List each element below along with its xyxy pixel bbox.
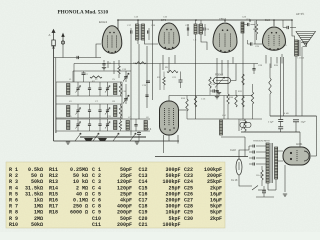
antenna terminal T — [61, 34, 64, 45]
wire IF2 to V3 grid — [201, 34, 207, 50]
coil L6 — [114, 121, 117, 130]
ground bank right — [135, 142, 139, 144]
coil L1 — [67, 84, 70, 95]
capacitor C4 — [88, 88, 91, 89]
mains tap 125V — [253, 145, 255, 148]
resistor R16 det — [235, 95, 238, 107]
capacitor C2 avc — [82, 73, 86, 74]
wire coupling to V4 grid — [254, 43, 263, 45]
trimmer capacitor C3 — [76, 88, 79, 89]
wire riser tube V4 screen — [273, 20, 275, 26]
IF transformer 2 windings L11 L12 — [194, 24, 197, 34]
table column C22-C30 — [184, 167, 222, 222]
wire IF2 primary top — [195, 20, 197, 24]
coil L7 row3 — [126, 121, 129, 131]
resistor R14 EM4 — [186, 99, 189, 111]
wire mains bottom — [256, 196, 274, 198]
capacitor C17 IF1 left — [131, 30, 132, 33]
wire det lower horizontal — [221, 136, 245, 138]
band switch arrow 1 — [75, 133, 81, 141]
wire rectifier anode leads — [278, 150, 283, 152]
capacitor C30 tone — [287, 26, 288, 29]
ground det — [215, 97, 219, 99]
wire IF2 secondary to detector — [195, 34, 197, 119]
resistor R11b det load lower — [242, 96, 245, 107]
wire osc vertical 3 — [146, 46, 148, 108]
trimmer capacitor row 3 — [106, 124, 109, 125]
wire riser IF1 primary — [137, 20, 139, 24]
wire IF1 secondary to V2 grid — [145, 40, 159, 44]
antenna terminal A — [52, 30, 56, 47]
resistor in row 2 — [119, 106, 122, 116]
resistor R15 V4 cathode — [269, 78, 272, 94]
wire EM4 top lead — [168, 96, 170, 102]
ground pot — [217, 93, 221, 95]
capacitor C28 V4 cathode — [252, 69, 255, 70]
output transformer frame — [301, 43, 307, 47]
wire lamp bottom — [239, 175, 252, 186]
wire det horizontal rail — [187, 118, 262, 120]
capacitor C31 mains — [262, 191, 266, 193]
IF transformer windings L9 L10 — [136, 24, 139, 40]
wire grid feed V1 — [96, 44, 101, 58]
wire row 2 bottom rail — [56, 117, 122, 119]
potentiometer P2 tone control — [240, 122, 251, 127]
wire riser tube V3 plate — [224, 20, 226, 22]
capacitor C27 filter — [278, 127, 283, 129]
output transformer core — [298, 40, 300, 56]
band switch wafer rail — [80, 136, 146, 138]
IF1 core — [139, 24, 141, 40]
coil L5 — [67, 121, 70, 130]
tube V4 output pentode — [263, 27, 286, 51]
wire riser tube V1 plate — [117, 20, 119, 30]
wire V4 plate drop — [280, 57, 282, 120]
capacitor C11 — [98, 124, 101, 125]
resistor R17 filter — [244, 121, 247, 131]
capacitor C8 — [98, 110, 101, 111]
wire main ground rail — [54, 140, 180, 142]
switch wafer contact 1 — [84, 138, 93, 141]
resistor R12 under V3 — [227, 94, 230, 104]
fuse bowtie on antenna lead — [52, 45, 55, 48]
capacitor C25 coupling — [251, 42, 252, 45]
wire drop to power section — [244, 137, 246, 157]
wire V3 pin leads — [216, 58, 218, 70]
power transformer primary winding — [266, 143, 269, 183]
wire V4 screen drop — [283, 57, 285, 116]
capacitor C21 V2 bypass — [179, 80, 183, 82]
output transformer winding L15 — [295, 40, 299, 56]
resistor R3 at V1 — [118, 66, 121, 74]
wire AVC bus upper — [74, 63, 258, 65]
wire coil bank mid rail — [121, 82, 123, 119]
wire gang link — [125, 84, 127, 93]
speaker AP — [296, 32, 316, 46]
wire avc drop — [73, 64, 75, 83]
capacitor C16 at V1 cathode — [102, 64, 105, 65]
wire row 2 top rail — [56, 103, 122, 105]
wire det vertical — [216, 70, 218, 90]
trimmer capacitor C9 — [76, 124, 79, 125]
wire EM4 bottom lead — [168, 135, 170, 141]
junction dots on B+ bus — [117, 19, 293, 21]
resistor R1 avc — [90, 76, 102, 78]
resistor R13 coupling — [255, 24, 258, 34]
wire lamp top — [239, 146, 249, 159]
wire osc vertical 1 — [130, 40, 132, 136]
wire EM4 right side — [179, 109, 188, 111]
capacitor C20 osc — [145, 95, 148, 96]
table column C1-C11 — [92, 167, 132, 228]
wire EM4 left pin drop — [163, 135, 165, 153]
capacitor C28 filter right — [293, 120, 299, 122]
capacitor C24 coupling top — [248, 23, 249, 26]
table column R1-R10 — [9, 167, 43, 228]
wire right edge drop — [316, 116, 318, 156]
coupling coil L13 — [241, 22, 244, 33]
table column C12-C21 — [139, 167, 181, 228]
wire rectifier cathode up — [299, 132, 301, 147]
tube V2 IF amplifier — [159, 23, 180, 50]
table column R11-R18 — [49, 167, 88, 216]
wire pot wiper to V3 grid — [231, 64, 236, 81]
capacitor C7 — [88, 110, 91, 111]
wire bottom center rail — [155, 156, 248, 158]
wire osc vertical 2 — [138, 44, 140, 119]
component value labels — [69, 19, 287, 119]
wire long center vertical — [242, 22, 244, 119]
capacitor C19 osc — [146, 81, 150, 82]
IF2 core — [197, 24, 199, 34]
resistor R4 oscillator in bus — [135, 62, 146, 64]
potentiometer P 50k volume control — [214, 78, 231, 84]
capacitor C23 IF2 right — [204, 27, 205, 30]
wire frame down — [301, 47, 303, 116]
wire V1 grid lead — [95, 43, 97, 45]
capacitor C1 antenna coupling — [77, 56, 78, 59]
tube EM4 magic eye — [160, 101, 179, 135]
wire tone from plate — [282, 20, 284, 28]
resistor in row 3 — [119, 121, 122, 129]
wire avc drop 2 — [72, 71, 74, 82]
wire V4 plate riser to transformer — [292, 20, 295, 40]
wire osc vertical 4 — [152, 20, 154, 100]
power transformer core — [270, 143, 272, 183]
wire row 1 bottom rail — [56, 95, 122, 97]
capacitor C22 IF2 left — [187, 27, 188, 30]
wire rectifier heater drop — [284, 165, 286, 192]
wire riser coupling — [249, 20, 251, 22]
dial lamp CL18 — [236, 159, 242, 175]
band switch arrow 3 — [113, 133, 119, 141]
resistor R5 V2 cathode — [167, 70, 178, 72]
capacitor C10 — [88, 124, 91, 125]
capacitor C5 — [98, 88, 101, 89]
wire V4 pin leads — [265, 55, 267, 64]
rectifier tube V5 — [283, 147, 310, 165]
wire antenna coupling — [54, 57, 101, 59]
coil L8 row3 — [144, 121, 147, 131]
capacitor C12 row3 — [134, 125, 137, 126]
wire V1 pin leads — [103, 60, 105, 62]
wire row 1 top rail — [56, 81, 122, 83]
coil L2 — [114, 84, 117, 95]
coil L4 — [114, 106, 117, 117]
mains switch I1 — [252, 186, 258, 191]
wire B+ top bus — [118, 19, 292, 21]
tube V3 detector output — [213, 23, 237, 53]
trimmer capacitor C6 — [76, 110, 79, 111]
resistor R18 power bleeder — [261, 170, 264, 180]
switch wafer contact 2 — [98, 138, 107, 141]
wire coupling left — [248, 40, 251, 44]
ground power — [283, 194, 287, 196]
wire lamp feed — [238, 119, 240, 131]
capacitor C24 det — [215, 91, 218, 92]
wire coupling vertical — [254, 21, 256, 44]
wire V2 cathode rail — [159, 64, 161, 91]
parts list table background — [6, 162, 225, 228]
band switch arrow 2 — [93, 133, 99, 141]
wire to rectifier cathode — [311, 155, 317, 157]
variable capacitor C13 tuning gang — [124, 77, 128, 78]
capacitor C26 filter — [278, 120, 283, 122]
wire row 3 bottom rail — [56, 130, 150, 132]
power transformer secondary winding — [275, 147, 278, 179]
band switch arrow 4 — [130, 133, 136, 141]
wire transformer bottom leads — [267, 183, 269, 190]
wire row 3 top rail — [56, 118, 150, 120]
resistor R6 below — [163, 77, 166, 85]
trimmer capacitor row 2 — [106, 110, 109, 111]
wire transformer bottom to filter — [295, 56, 297, 116]
wire pot body down — [223, 96, 225, 120]
resistor R10 right of pot — [251, 92, 254, 104]
wire terminal T drop — [62, 44, 64, 58]
wire antenna lead — [53, 46, 55, 141]
resistor in row 1 — [119, 84, 122, 94]
resistor R11 det load upper — [242, 74, 245, 85]
tube V1 ECH4 frequency changer — [102, 26, 122, 54]
capacitor C18 IF1 right — [148, 30, 149, 33]
wire pot left leg — [212, 80, 214, 82]
wire coil bank left rail — [55, 82, 57, 133]
wire EM4 right pin drop — [177, 135, 179, 144]
mains tap 140V — [253, 151, 255, 154]
wire IF1 primary return — [137, 40, 139, 44]
wire antenna lead inner — [55, 58, 57, 134]
trimmer capacitor row 1 — [106, 88, 109, 89]
resistor R8 detector line — [194, 96, 197, 107]
wire power top rail — [241, 131, 300, 133]
ground coil bank left — [66, 142, 70, 144]
wire AVC bus lower — [73, 70, 131, 72]
choke L14 — [220, 120, 223, 135]
mains tap 220V — [253, 163, 255, 166]
coil L3 — [67, 106, 70, 117]
capacitor C15 end of bank — [137, 133, 141, 135]
wire V2 pin leads — [162, 55, 164, 70]
ground V1 cathode — [102, 68, 106, 70]
wire B+ bus right — [270, 115, 317, 117]
variable capacitor C14 tuning gang — [124, 99, 128, 100]
resistor R9 agc — [209, 77, 212, 88]
capacitor C10 pot — [213, 89, 214, 92]
mains tap 160V — [253, 157, 255, 160]
